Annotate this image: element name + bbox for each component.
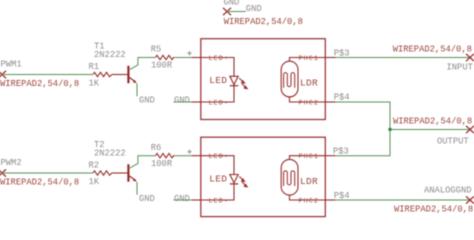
- transistor T2 base bar: [127, 164, 129, 181]
- svg-text:LED-: LED-: [209, 197, 230, 205]
- transistor T2 emitter arrow: [130, 176, 136, 181]
- wire P$4 U1 to junction: [336, 102, 391, 130]
- svg-text:OUTPUT: OUTPUT: [437, 137, 469, 147]
- LED D1 cathode bar: [230, 85, 238, 87]
- svg-text:WIREPAD2,54/0,8: WIREPAD2,54/0,8: [393, 117, 472, 127]
- opto-isolator U2 box: [201, 137, 325, 216]
- svg-text:1K: 1K: [89, 79, 100, 89]
- svg-text:PHC2: PHC2: [299, 197, 320, 205]
- wire GND to U2 LED-: [174, 199, 192, 201]
- node + mark: [187, 51, 191, 55]
- LED D2 triangle: [230, 175, 238, 183]
- svg-text:LED: LED: [209, 173, 227, 184]
- svg-text:1K: 1K: [89, 177, 100, 187]
- svg-text:2N2222: 2N2222: [94, 149, 126, 159]
- svg-text:2N2222: 2N2222: [94, 50, 126, 60]
- opto-isolator U1 box: [201, 39, 325, 120]
- LDR capsule U2: [281, 159, 298, 195]
- LED D2 emission arrows: [239, 176, 247, 187]
- wire P$3 U1 to INPUT pad: [336, 57, 471, 59]
- LDR meander U2: [284, 171, 295, 186]
- wire GND to U1 LED-: [174, 101, 192, 103]
- svg-text:GND: GND: [139, 194, 155, 204]
- svg-text:PHC1: PHC1: [299, 55, 320, 63]
- resistor R5: [156, 55, 175, 59]
- LDR meander U1: [284, 73, 295, 88]
- transistor T1 base bar: [127, 66, 129, 83]
- svg-text:R5: R5: [151, 45, 162, 55]
- U2 internal LDR wiring: [290, 156, 326, 200]
- svg-text:GND: GND: [174, 95, 190, 105]
- resistor R2: [93, 171, 114, 175]
- pin stub LED- U2: [192, 199, 201, 201]
- LED D2 cathode bar: [230, 183, 238, 185]
- wirepad PWM2: [0, 169, 6, 176]
- wire T2 collector to R6: [130, 156, 156, 168]
- pin stub LED- U1: [192, 101, 201, 103]
- svg-text:GND: GND: [139, 95, 155, 105]
- wirepad GND (top center): [223, 8, 231, 15]
- svg-text:LED+: LED+: [209, 153, 230, 161]
- resistor R1: [93, 72, 114, 76]
- svg-text:WIREPAD2,54/0,8: WIREPAD2,54/0,8: [224, 17, 303, 27]
- svg-text:WIREPAD2,54/0,8: WIREPAD2,54/0,8: [0, 178, 79, 188]
- wire junction to OUTPUT pad: [390, 129, 470, 131]
- wire T2 emitter to GND: [136, 182, 138, 195]
- svg-text:R2: R2: [89, 161, 100, 171]
- junction dot: [388, 128, 391, 131]
- wire R6 to U2 LED+: [175, 155, 192, 157]
- svg-text:P$4: P$4: [334, 191, 350, 201]
- svg-text:LDR: LDR: [300, 176, 318, 187]
- pin stub LED+ U2: [192, 155, 201, 157]
- pin stub PHC2 U1: [325, 101, 335, 103]
- wirepad OUTPUT: [466, 126, 474, 133]
- LED D1 triangle: [230, 76, 238, 84]
- svg-text:WIREPAD2,54/0,8: WIREPAD2,54/0,8: [393, 45, 472, 55]
- resistor R6: [156, 154, 175, 158]
- wire GND pad to label: [227, 11, 246, 13]
- wire R5 to U1 LED+: [175, 57, 192, 59]
- svg-text:WIREPAD2,54/0,8: WIREPAD2,54/0,8: [394, 205, 473, 215]
- wire T1 emitter to GND: [136, 84, 138, 97]
- pin stub LED+ U1: [192, 57, 201, 59]
- svg-text:R6: R6: [151, 143, 162, 153]
- svg-text:P$3: P$3: [333, 147, 349, 157]
- svg-text:PWM1: PWM1: [1, 60, 22, 70]
- U2 internal LED wiring: [201, 156, 234, 200]
- LED D1 emission arrows: [239, 78, 247, 89]
- wire R1 to T1 base: [114, 74, 128, 76]
- svg-text:WIREPAD2,54/0,8: WIREPAD2,54/0,8: [0, 79, 79, 89]
- svg-text:R1: R1: [89, 62, 100, 72]
- svg-text:P$4: P$4: [334, 93, 350, 103]
- wire T1 collector to R5: [130, 58, 156, 70]
- pin stub PHC1 U1: [325, 57, 335, 59]
- wire R2 to T2 base: [114, 172, 128, 174]
- wire PWM1 to R1: [2, 74, 93, 76]
- svg-text:GND: GND: [246, 4, 262, 14]
- svg-text:ANALOGGND: ANALOGGND: [424, 186, 472, 196]
- node + mark: [187, 150, 191, 154]
- svg-text:PHC1: PHC1: [299, 153, 320, 161]
- pin stub PHC2 U2: [325, 199, 335, 201]
- svg-text:100R: 100R: [151, 60, 173, 70]
- svg-text:LED: LED: [209, 75, 227, 86]
- svg-text:100R: 100R: [151, 159, 173, 169]
- wirepad PWM1: [0, 71, 6, 78]
- LDR capsule U1: [281, 61, 298, 97]
- wirepad INPUT: [466, 54, 474, 61]
- svg-text:P$3: P$3: [334, 49, 350, 59]
- svg-text:LED+: LED+: [209, 55, 230, 63]
- svg-text:LED-: LED-: [209, 99, 230, 107]
- wire P$4 U2 to ANALOGGND pad: [336, 199, 471, 201]
- U1 internal LED wiring: [201, 58, 234, 103]
- pin stub PHC1 U2: [325, 155, 335, 157]
- wirepad ANALOGGND: [466, 196, 474, 203]
- svg-text:GND: GND: [174, 194, 190, 204]
- transistor T1 emitter arrow: [130, 78, 136, 83]
- svg-text:PWM2: PWM2: [1, 158, 22, 168]
- wire junction to U2 P$3: [336, 130, 391, 156]
- U1 internal LDR wiring: [290, 58, 326, 103]
- wire PWM2 to R2: [2, 172, 93, 174]
- svg-text:GND: GND: [224, 0, 240, 8]
- svg-text:LDR: LDR: [300, 78, 318, 89]
- svg-text:INPUT: INPUT: [447, 63, 473, 73]
- svg-text:PHC2: PHC2: [299, 99, 320, 107]
